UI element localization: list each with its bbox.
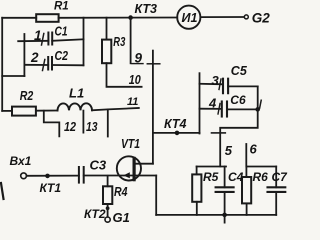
svg-text:C2: C2 <box>55 49 69 63</box>
node C4 rail junction <box>222 213 227 218</box>
wire C6 right <box>227 108 258 110</box>
wire R5 top lead <box>196 167 198 175</box>
pin 1 tick <box>260 100 262 108</box>
svg-text:10: 10 <box>129 73 141 87</box>
wire KT4 row <box>153 132 200 134</box>
svg-text:9: 9 <box>135 51 143 66</box>
pin 1 tick <box>42 34 44 46</box>
wire pin 11 stub down <box>107 109 109 136</box>
wire VT1 collector lead <box>135 163 153 165</box>
svg-text:C1: C1 <box>55 24 68 38</box>
svg-text:5: 5 <box>225 143 233 158</box>
wire R3 bottom lead <box>107 63 142 87</box>
capacitor C3 <box>79 167 84 183</box>
wire R5 bottom lead <box>196 202 198 215</box>
capacitor C2 <box>48 57 52 70</box>
pin 9 tick <box>132 63 143 65</box>
wire C5 C6 left bus <box>199 73 201 133</box>
svg-text:И1: И1 <box>182 11 198 25</box>
wire R4 top lead <box>107 176 109 187</box>
svg-text:L1: L1 <box>69 86 84 101</box>
svg-text:R6: R6 <box>253 170 269 184</box>
meter I1 <box>177 6 200 29</box>
svg-text:6: 6 <box>250 142 258 157</box>
wire R6 C7 top bus <box>246 166 276 168</box>
wire I1 to G2 terminal <box>200 16 244 18</box>
scan mark bottom left <box>1 183 4 199</box>
svg-text:13: 13 <box>86 120 98 134</box>
wire R6 bottom lead <box>246 203 248 215</box>
svg-text:R1: R1 <box>54 1 69 13</box>
svg-text:КТ3: КТ3 <box>135 2 157 16</box>
svg-text:2: 2 <box>30 50 39 65</box>
wire C5 C6 right bus <box>257 86 259 109</box>
wire C6 to pin 5 <box>220 109 258 166</box>
svg-text:C5: C5 <box>231 64 248 78</box>
wire R5 C4 top bus <box>197 166 226 168</box>
wire L1 to pin 11 <box>92 108 139 110</box>
wire C1 row left <box>18 40 48 42</box>
capacitor C6 <box>222 102 227 117</box>
svg-text:G1: G1 <box>113 210 130 225</box>
svg-text:4: 4 <box>208 96 217 111</box>
wire R4 bottom lead <box>107 204 109 217</box>
wire C4 top lead <box>224 167 226 188</box>
wire C2 row left <box>24 64 48 66</box>
wire R2 to L1 <box>36 110 58 112</box>
wire pin 13 lead <box>82 111 84 133</box>
terminal G2 <box>244 15 248 19</box>
wire C2 row right <box>52 64 84 66</box>
svg-text:12: 12 <box>64 120 76 134</box>
wire left vertical <box>1 18 3 111</box>
node C6 output <box>255 107 260 112</box>
svg-text:G2: G2 <box>252 10 271 25</box>
wire R6 top lead <box>245 167 247 178</box>
svg-text:C4: C4 <box>228 170 244 184</box>
svg-text:КТ4: КТ4 <box>164 117 186 131</box>
resistor R1 <box>36 14 58 22</box>
wire C1 row right <box>52 39 83 41</box>
capacitor C1 <box>48 33 52 45</box>
pin 5 tick <box>212 132 226 134</box>
svg-text:C7: C7 <box>272 170 289 184</box>
wire pin 3 row <box>200 83 223 86</box>
wire VT1 emitter lead right <box>135 175 156 177</box>
pin 4 tick <box>218 104 220 115</box>
resistor R4 <box>103 186 112 204</box>
transistor VT1 <box>117 156 141 180</box>
resistor R6 <box>242 177 251 203</box>
wire pin 9 stub <box>130 18 132 64</box>
svg-text:R3: R3 <box>113 35 125 49</box>
wire R1 to I1 meter <box>59 17 178 19</box>
inductor L1 <box>57 103 92 110</box>
capacitor C5 <box>223 79 228 94</box>
capacitor C4 <box>216 187 234 192</box>
resistor R5 <box>192 174 201 201</box>
wire C7 top lead <box>275 167 277 188</box>
svg-text:R4: R4 <box>114 185 128 199</box>
pin 2 tick <box>43 60 45 71</box>
wire collector vertical <box>152 51 154 164</box>
svg-text:C3: C3 <box>90 158 107 173</box>
wire bottom rail <box>156 214 276 216</box>
wire pin 6 lead <box>245 144 247 167</box>
svg-text:КТ2: КТ2 <box>84 207 106 221</box>
wire input to C3 <box>27 175 79 177</box>
wire right bus of C1 C2 <box>83 18 85 66</box>
wire C4 bottom lead <box>224 192 226 223</box>
resistor R3 <box>102 40 111 64</box>
resistor R2 <box>12 107 36 116</box>
svg-text:КТ1: КТ1 <box>40 181 62 195</box>
wire C7 bottom lead <box>275 192 277 215</box>
wire R2 left lead <box>2 110 12 112</box>
terminal G1 <box>105 217 110 222</box>
svg-text:C6: C6 <box>230 93 246 107</box>
wire left bus of C1 C2 <box>23 34 25 76</box>
svg-text:VT1: VT1 <box>121 137 140 151</box>
wire jog bottom of left branch <box>2 75 24 77</box>
node KT4 <box>175 131 180 136</box>
svg-text:R2: R2 <box>20 89 34 103</box>
pin 3 tick <box>219 79 221 90</box>
svg-text:1: 1 <box>34 28 42 43</box>
wire pin 4 row <box>200 108 222 110</box>
svg-text:11: 11 <box>127 96 138 108</box>
svg-text:3: 3 <box>212 73 220 88</box>
node KT1 <box>45 174 50 179</box>
svg-text:Вх1: Вх1 <box>10 154 32 168</box>
wire R3 top lead <box>106 18 108 40</box>
wire emitter drop <box>155 176 157 215</box>
node KT3 <box>128 15 133 20</box>
terminal Bx1 <box>21 173 27 179</box>
capacitor C7 <box>268 187 286 192</box>
svg-text:R5: R5 <box>203 170 219 184</box>
wire C3 to VT1 base <box>84 175 133 177</box>
wire pin 12 lead <box>44 111 60 137</box>
wire top left from corner to R1 <box>2 17 36 19</box>
wire C5 right <box>228 85 258 87</box>
collector top tick <box>147 63 160 65</box>
node KT2 <box>106 206 110 210</box>
